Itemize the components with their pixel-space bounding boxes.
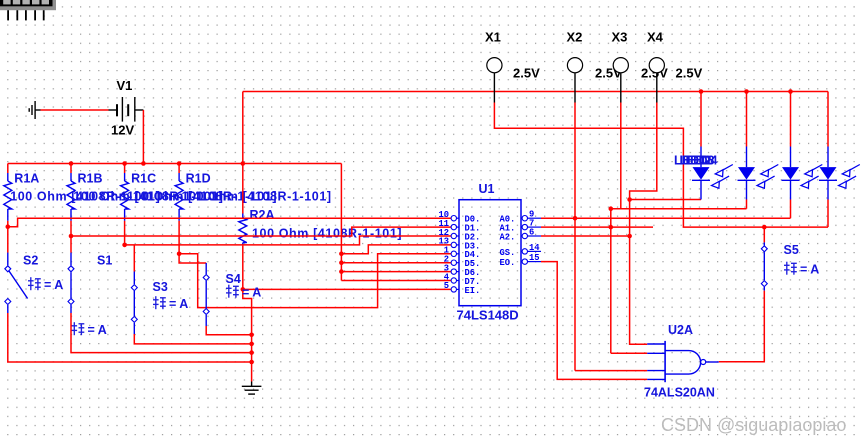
svg-text:X3: X3 bbox=[612, 29, 628, 44]
wire D6 line bbox=[341, 271, 451, 273]
svg-text:CSDN @siguapiaopiao: CSDN @siguapiaopiao bbox=[661, 415, 846, 435]
svg-text:R1C: R1C bbox=[131, 172, 156, 186]
label S2 key = A bbox=[28, 277, 63, 292]
wire D2 line bbox=[125, 236, 452, 245]
wire main bus bbox=[8, 163, 342, 165]
wire lamp bus bbox=[243, 91, 828, 93]
junction lamp bus LED2 bbox=[744, 89, 749, 94]
LED LED2 bbox=[738, 147, 779, 200]
wire EI net to ground jog bbox=[243, 289, 252, 334]
junction ground S1 line bbox=[249, 350, 254, 355]
svg-text:S5: S5 bbox=[784, 243, 799, 257]
wire A1 subline bbox=[611, 209, 747, 354]
svg-text:V1: V1 bbox=[117, 78, 133, 93]
NAND gate U2A 74ALS20AN bbox=[647, 341, 719, 382]
wire VCC riser bbox=[340, 164, 342, 281]
svg-text:X1: X1 bbox=[485, 29, 501, 44]
switch S1 bbox=[68, 266, 74, 305]
wire D1 line bbox=[71, 227, 451, 236]
DIP switch component (cut off) bbox=[0, 0, 56, 10]
wire bus to LED1 bbox=[700, 92, 702, 147]
svg-text:6: 6 bbox=[529, 228, 534, 238]
junction A0 X2 bbox=[573, 216, 578, 221]
svg-text:= A: = A bbox=[800, 263, 819, 277]
LED LED3 bbox=[782, 147, 823, 200]
svg-text:5: 5 bbox=[444, 281, 449, 291]
svg-text:GS.: GS. bbox=[500, 248, 516, 258]
label S3 key = A bbox=[153, 296, 188, 311]
svg-text:74LS148D: 74LS148D bbox=[457, 308, 519, 323]
svg-text:S4: S4 bbox=[226, 272, 241, 286]
wire R1B to S1 bbox=[70, 236, 72, 265]
label S5 key = A bbox=[784, 262, 819, 277]
wire R1A to S2 bbox=[7, 227, 9, 253]
junction R2A EI bbox=[241, 287, 246, 292]
wire X2 to A0 and U2A bbox=[574, 103, 576, 371]
wire bus riser to lamp bus bbox=[242, 92, 244, 164]
wire A2 line bbox=[541, 235, 630, 237]
wire S5 to U2A output bbox=[719, 287, 765, 362]
junction lamp bus LED1 bbox=[699, 89, 704, 94]
svg-text:74ALS20AN: 74ALS20AN bbox=[644, 386, 715, 400]
wire A0 line bbox=[541, 217, 791, 219]
junction R1B tap bbox=[69, 234, 74, 239]
wire S3 to ground line bbox=[134, 323, 251, 344]
wire S2 to ground line bbox=[8, 305, 252, 362]
indicator X2 bbox=[567, 58, 582, 103]
wire ground column bbox=[251, 335, 253, 382]
svg-text:U2A: U2A bbox=[668, 323, 693, 337]
svg-text:2.5V: 2.5V bbox=[676, 66, 703, 81]
IC U1 74LS148D bbox=[438, 200, 541, 306]
svg-text:R1D: R1D bbox=[186, 172, 211, 186]
svg-text:A2.: A2. bbox=[500, 232, 516, 242]
wire bus to LED2 bbox=[746, 92, 748, 147]
resistor R2A bbox=[239, 214, 247, 246]
wire tap to S3 bbox=[133, 245, 135, 272]
ground (battery return) bbox=[29, 101, 40, 119]
svg-text:S3: S3 bbox=[153, 280, 168, 294]
resistor R1C bbox=[121, 164, 129, 221]
svg-text:= A: = A bbox=[88, 323, 107, 337]
LED LED1 bbox=[692, 147, 733, 200]
wire R1A to D0 bbox=[7, 221, 9, 227]
switch S4 bbox=[203, 275, 209, 315]
wire A2 subline to LED1 bbox=[630, 199, 701, 201]
wire X4 to A2 column bbox=[630, 103, 657, 345]
junction A1 subline corner bbox=[609, 206, 614, 211]
svg-text:100 Ohm [4108R-1-101]: 100 Ohm [4108R-1-101] bbox=[182, 189, 332, 203]
LED LED4 bbox=[819, 147, 860, 200]
wire EI line to U1 pin 5 bbox=[243, 288, 451, 290]
wire D0 line bbox=[8, 218, 452, 227]
resistor R1B bbox=[67, 164, 75, 221]
wire S4 to ground line bbox=[206, 315, 251, 335]
junction X1 S5 bbox=[762, 225, 767, 230]
svg-text:S2: S2 bbox=[23, 254, 38, 268]
DIP switch pins bbox=[7, 10, 44, 20]
svg-text:2.5V: 2.5V bbox=[513, 66, 540, 81]
svg-text:X2: X2 bbox=[567, 29, 583, 44]
wire A1 line bbox=[541, 226, 653, 228]
junction bus R1B bbox=[69, 161, 74, 166]
wire ground to battery bbox=[41, 109, 109, 111]
junction R1D tap bbox=[177, 252, 182, 257]
wire R2A to EI junction bbox=[242, 246, 244, 290]
battery V1 bbox=[109, 97, 144, 122]
junction A1 branch bbox=[609, 225, 614, 230]
wire R1C to tap bbox=[124, 221, 126, 245]
indicator X4 bbox=[649, 58, 664, 103]
wire D5 line bbox=[341, 262, 451, 264]
wire tap to S4 bbox=[179, 254, 206, 263]
junction bus R1C bbox=[122, 161, 127, 166]
svg-text:= A: = A bbox=[44, 278, 63, 292]
wire LED3 to A0 line bbox=[790, 200, 792, 219]
svg-text:15: 15 bbox=[529, 253, 540, 263]
svg-text:100 Ohm [4108R-1-101]: 100 Ohm [4108R-1-101] bbox=[252, 227, 402, 241]
junction bus battery bbox=[141, 161, 146, 166]
junction R1C tap bbox=[122, 243, 127, 248]
junction bus R1D bbox=[177, 161, 182, 166]
switch S2 bbox=[5, 266, 28, 305]
junction ground S3 line bbox=[249, 342, 254, 347]
svg-text:= A: = A bbox=[169, 297, 188, 311]
resistor R1A bbox=[4, 164, 12, 221]
wire LED4 to X1 net bbox=[827, 200, 829, 228]
wire battery to bus bbox=[142, 110, 144, 164]
indicator X1 bbox=[487, 58, 502, 103]
resistor R1D bbox=[175, 164, 183, 221]
junction R1A tap bbox=[6, 224, 11, 229]
svg-text:EO.: EO. bbox=[500, 258, 516, 268]
wire S1 to ground line bbox=[71, 305, 252, 353]
wire X1 net to S5 bbox=[763, 227, 765, 242]
switch S3 bbox=[131, 285, 137, 323]
label S1 key = A bbox=[72, 322, 107, 337]
junction VCC D6 bbox=[339, 269, 344, 274]
svg-text:14: 14 bbox=[529, 243, 540, 253]
junction lamp bus LED3 bbox=[788, 89, 793, 94]
junction A2 LED1 bbox=[627, 197, 632, 202]
wire D7 line bbox=[341, 280, 451, 282]
wire EO to U2A bbox=[541, 262, 647, 380]
svg-text:12V: 12V bbox=[111, 123, 134, 138]
junction ground S2 line bbox=[249, 360, 254, 365]
svg-text:R1B: R1B bbox=[78, 172, 103, 186]
svg-text:U1: U1 bbox=[479, 182, 495, 196]
wire X1 to net bbox=[494, 103, 828, 228]
svg-text:S1: S1 bbox=[97, 254, 112, 268]
switch S5 bbox=[761, 246, 767, 287]
wire D4 line (long route) bbox=[179, 254, 451, 308]
indicator X3 bbox=[613, 58, 628, 103]
svg-text:LED4: LED4 bbox=[686, 153, 718, 167]
junction bus riser bbox=[241, 161, 246, 166]
wire bus to R2A bbox=[242, 164, 244, 214]
svg-text:EI.: EI. bbox=[465, 286, 481, 296]
svg-text:R2A: R2A bbox=[250, 208, 275, 222]
junction VCC D3 bbox=[339, 252, 344, 257]
wire lamp bus end to LED4 bbox=[827, 92, 829, 147]
junction A2 branch bbox=[627, 234, 632, 239]
svg-text:R1A: R1A bbox=[14, 172, 39, 186]
wire D3 line bbox=[341, 245, 451, 254]
ground bbox=[242, 382, 262, 395]
wire R1D to tap bbox=[178, 221, 180, 254]
svg-text:X4: X4 bbox=[647, 29, 664, 44]
wire X3 drop bbox=[620, 103, 622, 209]
wire R1B to tap bbox=[70, 221, 72, 236]
label S4 key = A bbox=[226, 285, 261, 300]
junction VCC D5 bbox=[339, 260, 344, 265]
wire LED2 to A1 subline bbox=[746, 200, 748, 209]
svg-text:= A: = A bbox=[242, 286, 261, 300]
wire bus to LED3 bbox=[790, 92, 792, 147]
junction ground S4 line bbox=[249, 333, 254, 338]
